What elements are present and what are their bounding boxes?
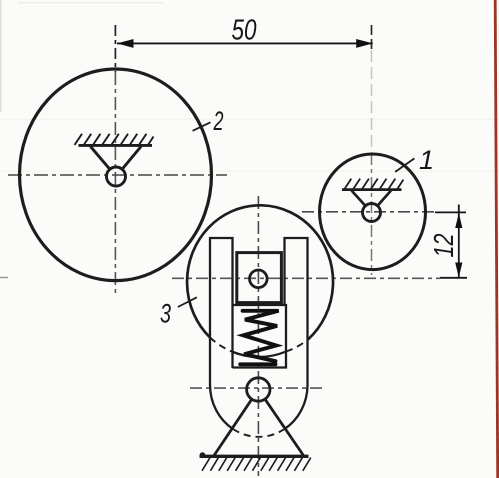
svg-text:12: 12 xyxy=(428,233,459,257)
svg-text:3: 3 xyxy=(160,299,171,329)
svg-text:2: 2 xyxy=(213,106,224,136)
svg-text:50: 50 xyxy=(232,15,257,47)
svg-text:1: 1 xyxy=(419,145,434,175)
